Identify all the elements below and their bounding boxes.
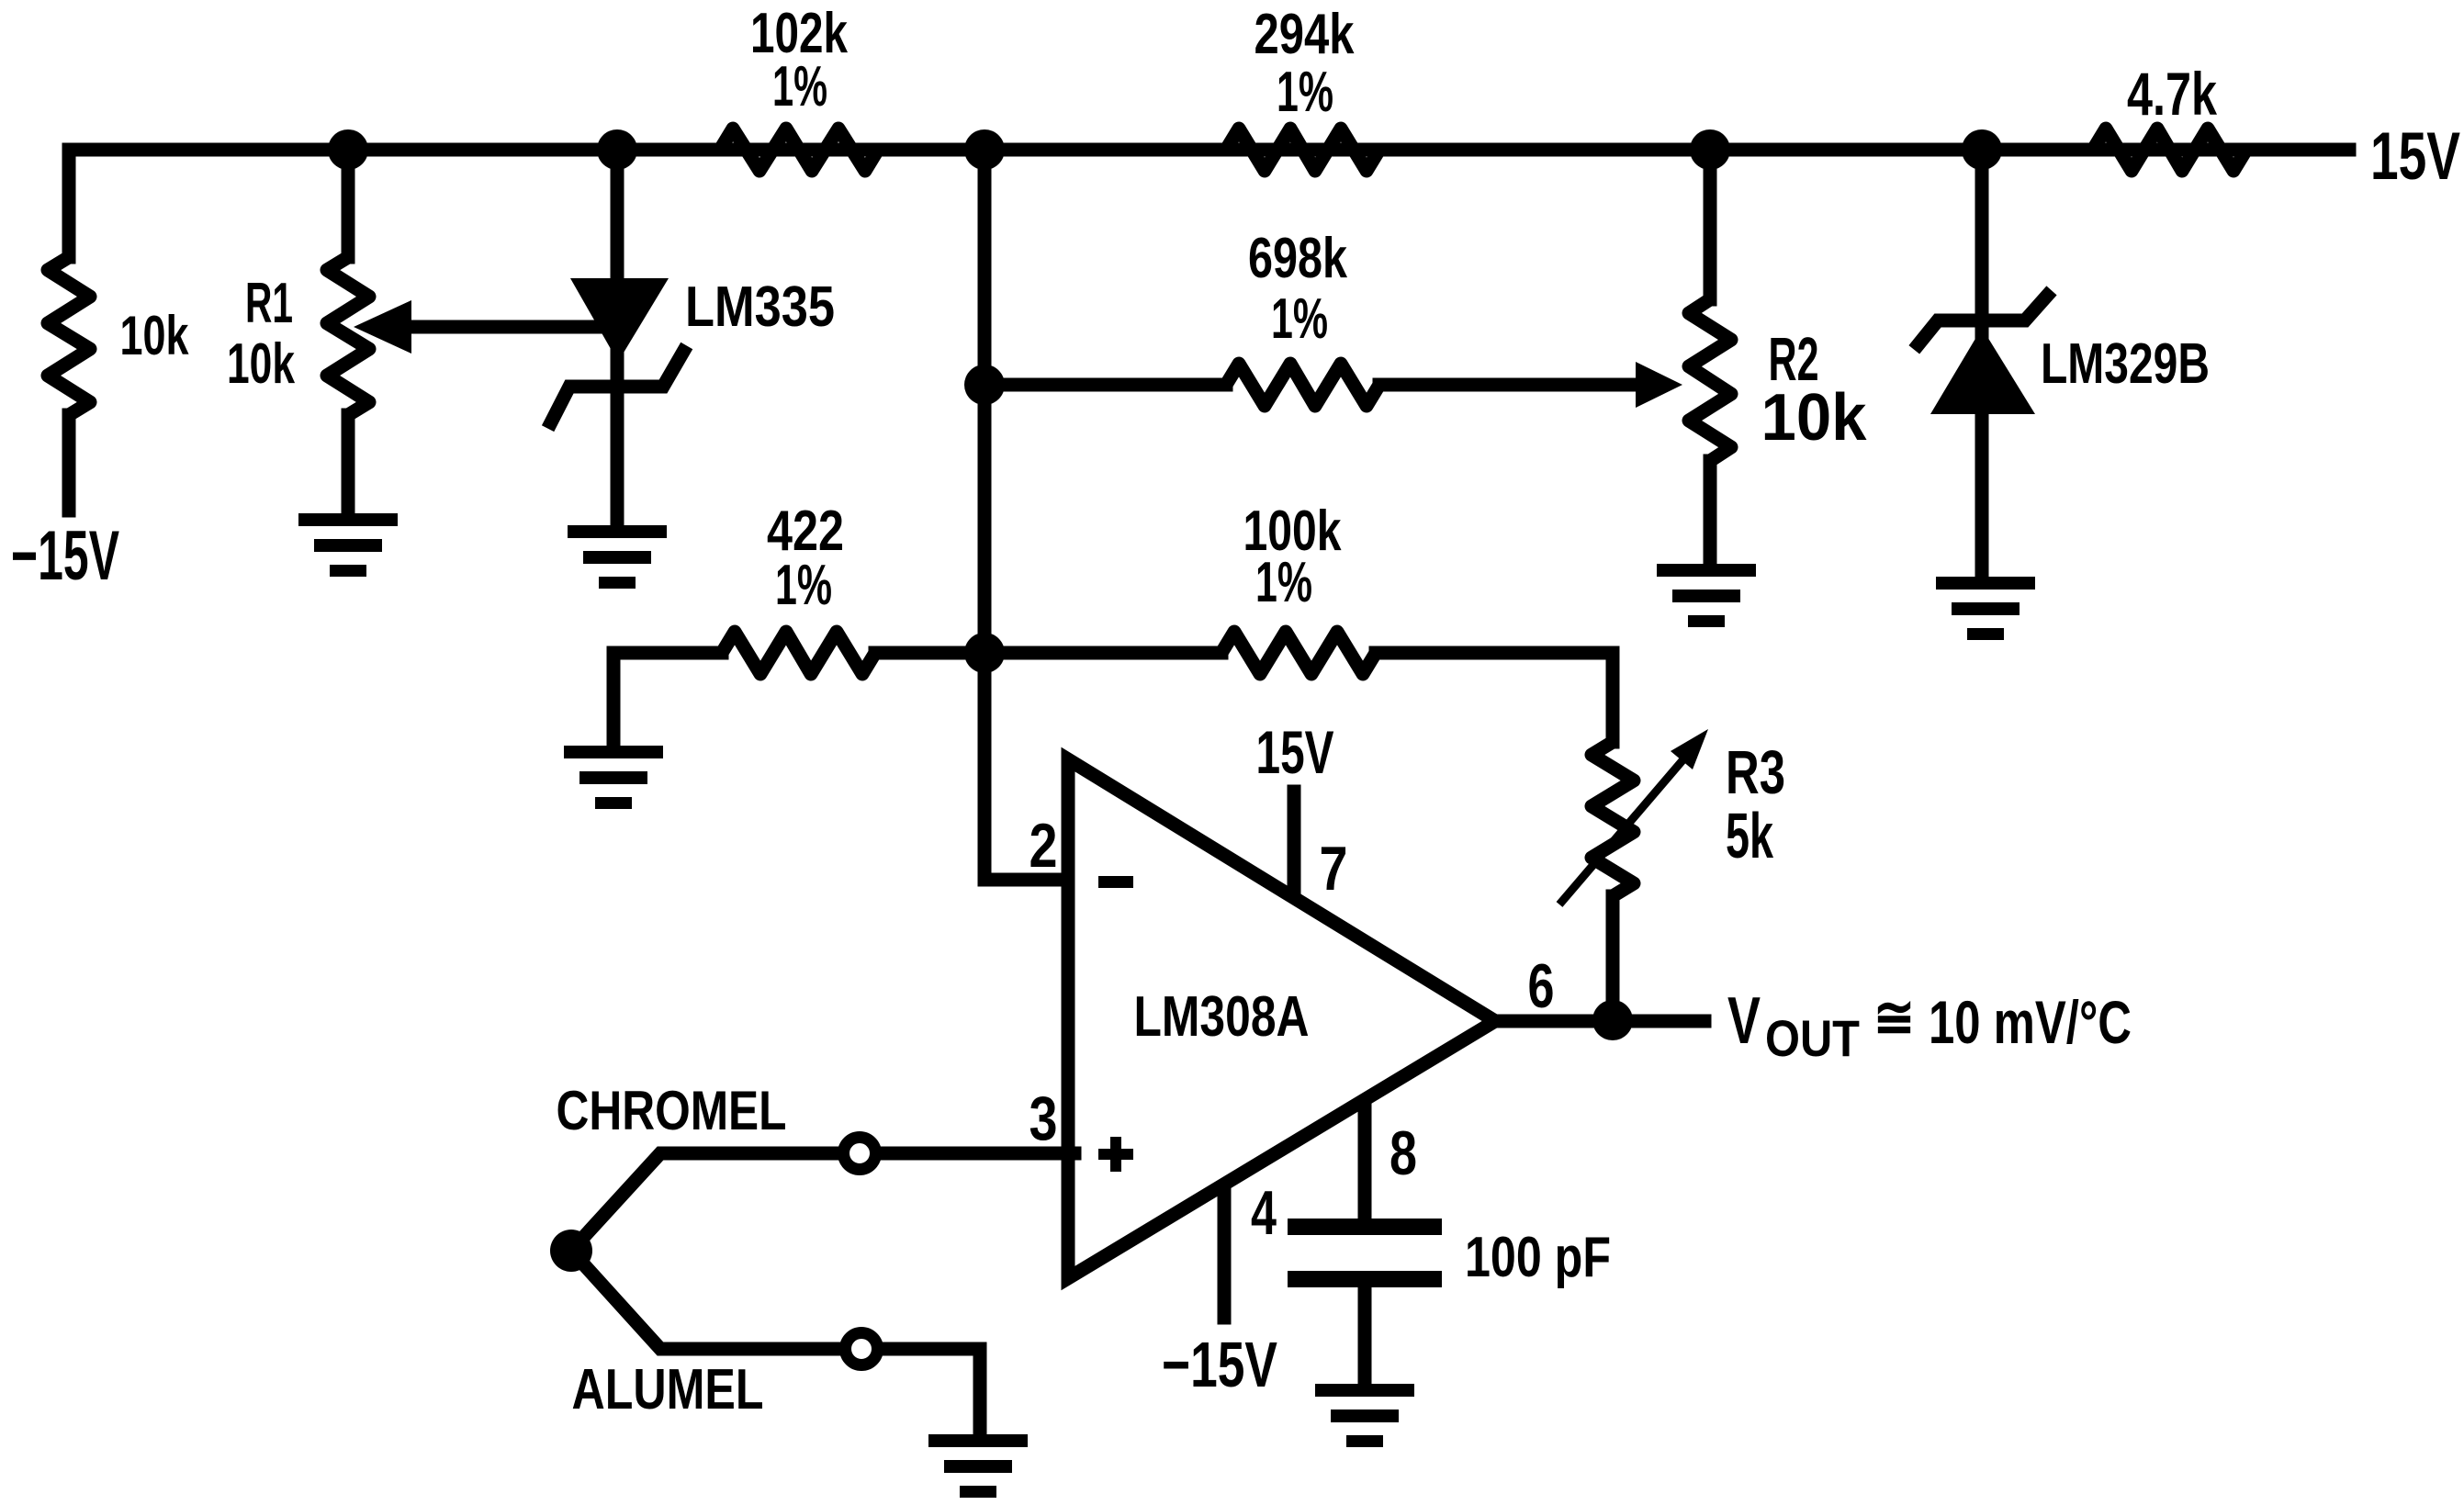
terminal alumel connector [846,1333,878,1365]
wire LM335 cathode/anode vertical [611,150,624,525]
wire LM335 adjust arm to R1 wiper [411,320,602,334]
svg-text:5k: 5k [1726,800,1773,871]
svg-text:3: 3 [1029,1084,1058,1153]
wire 100k to R3 top [1376,653,1613,742]
svg-text:R1: R1 [245,272,293,335]
svg-text:7: 7 [1320,834,1348,904]
op-amp plus input symbol [1098,1149,1133,1160]
svg-text:2: 2 [1029,811,1058,881]
svg-text:1%: 1% [772,55,827,118]
resistor 294k on rail [1226,129,1379,171]
wire chromel lead [571,1153,839,1251]
wire R1 top [342,150,355,257]
wire 698k row [984,378,1226,392]
zener diode LM335 bar [551,352,683,422]
zener diode LM329B bar [1918,296,2047,344]
svg-text:15V: 15V [2370,119,2460,194]
capacitor C1 100 pF top plate [1288,1219,1442,1235]
node output junction [1592,1000,1633,1040]
svg-text:698k: 698k [1248,227,1347,290]
trimmer R3 5k [1592,742,1634,896]
svg-text:10 mV/°C: 10 mV/°C [1929,988,2132,1056]
svg-text:CHROMEL: CHROMEL [557,1080,787,1141]
terminal chromel connector [844,1138,876,1170]
svg-text:6: 6 [1528,951,1555,1021]
svg-text:V: V [1727,984,1761,1058]
wire 698k to R2 wiper [1379,378,1638,392]
svg-text:1%: 1% [1271,287,1328,351]
potentiometer R2 10k [1689,299,1731,461]
wire op-amp output [1495,1015,1705,1028]
wire LM329B vertical [1975,150,1989,577]
svg-text:−15V: −15V [11,517,119,595]
wire R2 bottom [1704,461,1717,564]
wire 422 row from ground [613,653,722,746]
node junction dots on rail and column [328,129,368,170]
svg-text:1%: 1% [1255,551,1312,614]
zener diode LM335 triangle [570,278,669,362]
svg-text:8: 8 [1390,1118,1417,1188]
svg-text:LM335: LM335 [685,275,835,339]
ground under LM335 [568,525,667,589]
resistor 422 [722,632,875,674]
svg-text:≅: ≅ [1873,984,1915,1050]
wire cap to ground [1358,1287,1372,1384]
wire chromel to op-amp pin 3 [880,1147,1074,1161]
wire top supply rail [69,143,2349,157]
svg-text:10k: 10k [227,332,295,396]
capacitor C1 100 pF bottom plate [1288,1271,1442,1287]
ground alumel [928,1434,1028,1498]
svg-text:1%: 1% [775,554,832,617]
wire node to 100k [984,646,1221,660]
wire alumel lead [571,1251,839,1349]
resistor 102k on rail [720,129,878,171]
R3 adjust arrow line [1559,759,1683,904]
svg-text:LM329B: LM329B [2041,332,2210,396]
wire R1 bottom [342,415,355,513]
wire R2 top [1704,150,1717,299]
svg-text:294k: 294k [1255,3,1355,66]
svg-text:10k: 10k [120,305,189,366]
wire op-amp pin 7 (15V supply) [1288,792,1301,909]
svg-text:4.7k: 4.7k [2127,60,2217,128]
ground under R2 [1657,564,1756,627]
svg-text:−15V: −15V [1162,1329,1277,1400]
resistor 10k (left, to -15V) [48,257,90,415]
resistor 100k [1221,632,1376,674]
wire left -15V drop [62,150,76,257]
svg-text:1%: 1% [1277,61,1333,124]
svg-text:ALUMEL: ALUMEL [572,1358,764,1421]
svg-text:15V: 15V [1256,718,1334,786]
potentiometer R1 10k [327,257,369,415]
resistor 4.7k on rail [2093,129,2246,171]
node thermocouple junction [550,1230,592,1272]
svg-text:LM308A: LM308A [1134,985,1310,1049]
R1 wiper arrowhead [354,300,411,354]
wire op-amp pin 4 (-15V supply) [1218,1175,1232,1318]
wire 422 to node [875,646,984,660]
svg-text:OUT: OUT [1765,1009,1860,1067]
svg-text:4: 4 [1251,1178,1277,1248]
ground under 100 pF [1315,1384,1414,1447]
wire alumel to ground [882,1349,980,1434]
svg-text:100 pF: 100 pF [1465,1226,1611,1289]
svg-text:10k: 10k [1761,381,1868,455]
wire R3 bottom to output node [1606,896,1620,1020]
wire 10k to -15V terminal [62,415,76,511]
wire op-amp pin 8 to compensation cap [1358,1097,1372,1219]
ground for 422 resistor [564,746,663,809]
wire middle vertical node down to op-amp pin 2 [984,150,1074,880]
svg-text:R3: R3 [1726,738,1785,807]
op-amp U1 LM308A triangle [1068,759,1495,1278]
ground under LM329B [1936,577,2035,640]
R2 wiper arrowhead [1636,362,1682,408]
op-amp minus input symbol [1098,876,1133,888]
R3 adjust arrowhead [1671,729,1708,769]
ground under R1 [298,513,398,577]
label VOUT = 10 mV/degC [1727,984,2132,1067]
zener diode LM329B triangle [1930,328,2035,414]
resistor 698k [1226,364,1379,406]
